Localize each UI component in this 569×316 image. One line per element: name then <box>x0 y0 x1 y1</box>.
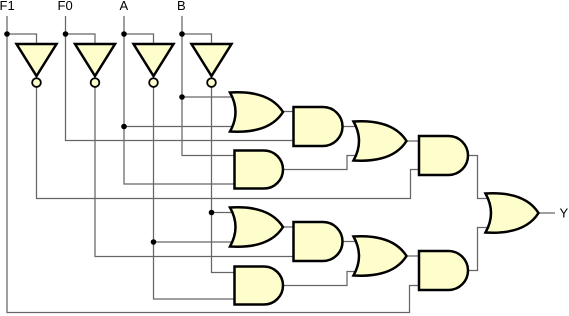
node NOT-A junction <box>151 239 157 245</box>
svg-text:Y: Y <box>560 206 569 221</box>
and-gate AND2 <box>419 136 468 175</box>
wire B to OR1 <box>182 96 238 98</box>
inverter U3 (A) <box>134 44 174 76</box>
wire A to OR1 <box>124 126 238 128</box>
or-gate OR3 <box>230 207 283 246</box>
wire OR1 to AND1 <box>283 111 294 113</box>
wire AND3b to OR4 <box>284 272 362 286</box>
svg-text:F1: F1 <box>0 0 15 13</box>
node NOT-B junction <box>209 210 215 216</box>
or-gate OR4 <box>354 236 407 275</box>
wire NOT-B to OR3 <box>212 212 239 214</box>
wire F0 to inverter U2 <box>66 34 96 46</box>
wire F1 to inverter U1 <box>7 34 37 46</box>
node F0 junction <box>63 31 69 37</box>
wire AND1b to OR2 <box>284 156 362 170</box>
inverter U2 (F0) <box>75 44 115 76</box>
or-gate OR2 <box>354 121 407 160</box>
svg-text:B: B <box>177 0 186 13</box>
and-gate AND3 <box>294 222 343 261</box>
wire OR4 to AND4 <box>407 255 420 257</box>
inverter U1 (F1) <box>17 44 57 76</box>
wire NOT-A output vertical <box>154 85 235 299</box>
or-gate OR5 <box>486 193 539 232</box>
or-gate OR1 <box>230 92 283 131</box>
svg-text:A: A <box>120 0 129 13</box>
wire B vertical <box>182 16 238 156</box>
wire NOT-F1 output to AND2 <box>37 85 420 199</box>
node B junction <box>179 31 185 37</box>
wire F0 vertical <box>66 16 294 141</box>
wire B to inverter U4 <box>182 34 212 46</box>
wire A vertical <box>124 16 235 184</box>
and-gate AND4 <box>419 251 468 290</box>
and-gate AND1b <box>235 151 284 189</box>
wire OR2 to AND2 <box>407 140 420 142</box>
wire F1 vertical <box>7 16 419 313</box>
wire NOT-B output vertical <box>212 85 235 273</box>
node A junction <box>121 31 127 37</box>
and-gate AND1 <box>294 107 343 146</box>
wire AND3 to OR4 <box>343 241 362 243</box>
wire AND1 to OR2 <box>343 126 362 128</box>
wire AND4 to OR5 <box>468 228 493 271</box>
wire A to inverter U3 <box>124 34 154 46</box>
node B to OR1 junction <box>179 94 185 100</box>
node F1 junction <box>4 31 10 37</box>
wire OR5 output Y <box>539 212 556 214</box>
svg-text:F0: F0 <box>58 0 73 13</box>
wire NOT-A to OR3 <box>154 241 239 243</box>
wire NOT-F0 output to AND3 <box>95 85 294 257</box>
node A to OR1 junction <box>121 124 127 130</box>
and-gate AND3b <box>235 267 284 305</box>
inverter U4 (B) <box>192 44 232 76</box>
wire OR3 to AND3 <box>283 226 294 228</box>
wire AND2 to OR5 <box>468 156 493 199</box>
